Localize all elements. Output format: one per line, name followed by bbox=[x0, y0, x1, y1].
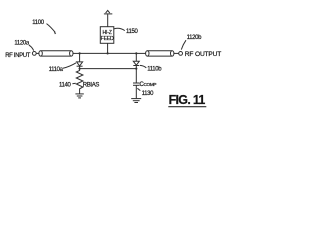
label 1130 leader bbox=[137, 88, 140, 90]
wire: feed block lead bbox=[107, 43, 109, 53]
ground GND1 bbox=[75, 94, 83, 98]
node label 1100 leader arrow bbox=[47, 24, 57, 35]
svg-text:RF INPUT: RF INPUT bbox=[5, 53, 31, 59]
svg-text:1120a: 1120a bbox=[14, 41, 30, 47]
wire: input terminal to TL1 bbox=[36, 52, 39, 54]
wire: node B to node C bbox=[108, 52, 137, 54]
transmission line TL2 (right cylinder) bbox=[146, 51, 174, 56]
label 1110b leader bbox=[140, 65, 146, 67]
transmission line TL1 (left cylinder) bbox=[39, 51, 73, 56]
svg-text:FEED: FEED bbox=[101, 36, 114, 42]
lower wire: node D to node E bbox=[80, 68, 137, 70]
svg-text:1100: 1100 bbox=[32, 20, 45, 26]
wire: node A to node B bbox=[80, 52, 108, 54]
label 1140 leader bbox=[72, 82, 75, 85]
svg-text:1130: 1130 bbox=[142, 91, 155, 97]
label 1120a leader bbox=[29, 45, 34, 50]
svg-text:1110a: 1110a bbox=[49, 67, 64, 73]
junction node E bbox=[135, 68, 137, 70]
block HI-Z FEED (1150) bbox=[100, 27, 114, 44]
svg-text:FIG. 11: FIG. 11 bbox=[169, 93, 206, 107]
capacitor CCOMP (1130) bbox=[133, 69, 140, 99]
wire: TL1 to node A bbox=[73, 52, 80, 54]
wire: TL2 to output terminal bbox=[174, 52, 179, 54]
label 1120b leader bbox=[181, 40, 186, 49]
RF OUTPUT terminal circle bbox=[179, 52, 183, 56]
junction node B (feed tap) bbox=[107, 52, 109, 54]
svg-text:RF OUTPUT: RF OUTPUT bbox=[185, 51, 221, 58]
svg-text:1140: 1140 bbox=[59, 82, 72, 88]
RF INPUT terminal circle bbox=[32, 52, 36, 56]
svg-text:1110b: 1110b bbox=[147, 66, 162, 72]
svg-text:RBIAS: RBIAS bbox=[83, 82, 100, 88]
junction node D bbox=[79, 68, 81, 70]
ground GND2 bbox=[131, 99, 141, 103]
wire: node C to TL2 bbox=[136, 52, 145, 54]
resistor RBIAS 1140 bbox=[76, 69, 83, 94]
svg-text:CCOMP: CCOMP bbox=[140, 82, 157, 88]
junction node C bbox=[135, 52, 137, 54]
svg-text:1150: 1150 bbox=[126, 29, 139, 35]
junction node A bbox=[79, 52, 81, 54]
schematic line work bbox=[29, 10, 206, 106]
figure caption underline bbox=[168, 106, 206, 108]
svg-text:1120b: 1120b bbox=[187, 35, 203, 41]
supply symbol above feed block bbox=[104, 10, 112, 26]
label 1110a leader bbox=[63, 63, 76, 68]
diode 1110a (anode up, cathode down) bbox=[77, 53, 83, 68]
diode 1110b (anode up, cathode down) bbox=[133, 53, 139, 68]
label 1150 leader bbox=[114, 28, 125, 30]
